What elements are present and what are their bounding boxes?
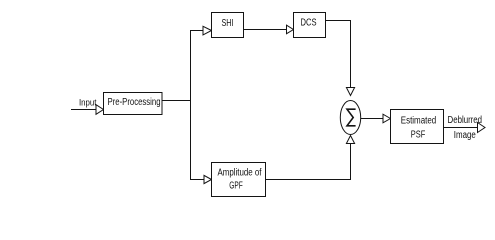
- block SHI: [212, 13, 244, 38]
- svg-text:DCS: DCS: [301, 18, 317, 29]
- svg-text:SHI: SHI: [222, 18, 234, 29]
- wire summing junction to Estimated PSF: [361, 118, 383, 120]
- wire Amplitude of GPF output to summing junction (right then up): [266, 144, 351, 180]
- svg-text:Amplitude of: Amplitude of: [218, 167, 262, 178]
- wire SHI to DCS: [244, 29, 287, 31]
- block DCS: [294, 13, 326, 38]
- block Estimated PSF: [391, 110, 444, 144]
- svg-text:Estimated: Estimated: [401, 115, 437, 126]
- wire Estimated PSF output arrow: [444, 127, 478, 129]
- wire Pre-Processing output to junction: [162, 100, 191, 102]
- svg-text:GPF: GPF: [229, 180, 243, 191]
- sigma symbol: [347, 109, 356, 126]
- svg-text:Pre-Processing: Pre-Processing: [108, 97, 161, 108]
- arrowhead output: [478, 123, 486, 133]
- arrowhead into SHI: [203, 26, 212, 35]
- svg-text:Input: Input: [79, 98, 97, 108]
- arrowhead into summing junction bottom: [346, 136, 354, 144]
- arrowhead into Estimated PSF: [383, 114, 391, 123]
- block Amplitude of GPF: [212, 163, 266, 197]
- wire input arrow line: [71, 109, 96, 111]
- svg-text:PSF: PSF: [411, 130, 426, 141]
- arrowhead into Pre-Processing: [96, 105, 104, 115]
- svg-text:Image: Image: [454, 130, 476, 141]
- arrowhead into DCS: [287, 25, 294, 34]
- arrowhead into Amplitude of GPF: [204, 175, 212, 183]
- wire junction vertical branch with top and bottom branches: [191, 31, 205, 180]
- svg-text:Deblurred: Deblurred: [448, 115, 483, 126]
- summing junction ellipse: [340, 101, 360, 135]
- block Pre-Processing: [104, 93, 163, 115]
- wire DCS output to summing junction (right then down): [326, 21, 351, 88]
- arrowhead into summing junction top: [346, 88, 354, 96]
